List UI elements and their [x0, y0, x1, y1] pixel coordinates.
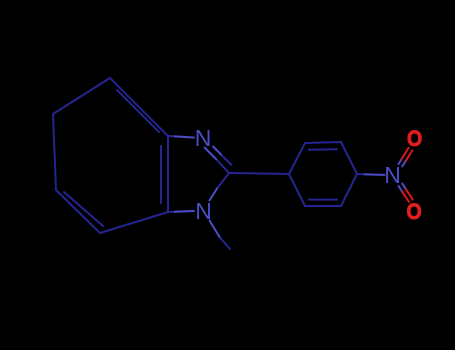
bond N=O bottom, line 1 N half: [399, 186, 403, 192]
bond N=O top, line 2 O half: [406, 150, 413, 160]
bond C6'-C1': [289, 174, 305, 206]
bond C5'-C6': [305, 205, 341, 207]
bond C2=N3 carbon half, main line: [216, 159, 229, 173]
bond C2-C1': [229, 173, 289, 174]
bond C2-N1 N half: [210, 189, 218, 201]
bond C2''-C3': [305, 142, 341, 143]
bond C3a-N3 (carbon half): [168, 135, 175, 137]
svg-text:N: N: [195, 125, 212, 151]
bond C3a-C4: [110, 78, 168, 136]
bond C5-C6: [53, 114, 56, 190]
bond N=O top, line 2 N half: [402, 161, 406, 167]
bond N=O bottom, line 2 N half: [402, 184, 406, 190]
inner aromatic line C6=C7: [64, 192, 103, 226]
benzo ring of benzimidazole (carbon skeleton, faint navy): [53, 78, 168, 233]
inner aromatic line C3a=C7a fusion: [160, 146, 162, 203]
bond N1-CH3 N half: [210, 221, 220, 238]
bond C2-N1 carbon half: [217, 173, 229, 189]
bond C7a-N1 (carbon half): [168, 211, 175, 213]
svg-text:N: N: [195, 198, 212, 224]
bond C4-C5: [53, 78, 110, 114]
bond C1'-C2'': [289, 143, 305, 174]
4-nitrophenyl ring (faint navy): [289, 142, 363, 206]
svg-text:N: N: [384, 162, 401, 188]
atom labels: [195, 125, 423, 224]
inner aromatic line C2''=C3': [309, 148, 337, 151]
bond C2=N3 N half, second line: [213, 147, 221, 155]
bond C7a-C3a (ring fusion): [167, 136, 169, 212]
bright halves of bonds adjacent to N atoms: [175, 136, 385, 237]
svg-text:O: O: [407, 127, 422, 152]
bond C7-C7a: [100, 212, 168, 233]
bond C2=N3 N half, main line: [205, 148, 217, 160]
bond N1-CH3 carbon half: [220, 237, 231, 249]
bond C3a-N3 (N half): [175, 136, 195, 137]
bond C2=N3 carbon half, second line: [221, 155, 232, 166]
bond N=O bottom, line 2 O half: [406, 189, 413, 199]
nitro N=O double bond to top O: blue halves: [399, 158, 407, 191]
inner aromatic line C5'=C6': [309, 199, 337, 201]
faint halves of C-N bonds in 5-ring: [168, 136, 289, 249]
bond N=O bottom, line 1 O half: [402, 192, 409, 202]
bond N=O top, line 1 O half: [402, 148, 409, 158]
bond C6-C7: [56, 190, 100, 233]
bond C4'-N nitro (N half): [363, 173, 385, 176]
bond N=O top, line 1 N half: [399, 158, 403, 164]
bond C3'-C4': [341, 142, 357, 174]
bond C4'-N nitro (carbon half): [357, 173, 363, 175]
inner aromatic line C3a=C4: [117, 90, 159, 132]
nitro N=O double bond red halves: [402, 148, 413, 202]
wire: [53, 78, 413, 249]
bond C7a-N1 (N half): [175, 210, 195, 213]
svg-text:O: O: [406, 200, 421, 225]
bond C4'-C5': [341, 174, 357, 206]
